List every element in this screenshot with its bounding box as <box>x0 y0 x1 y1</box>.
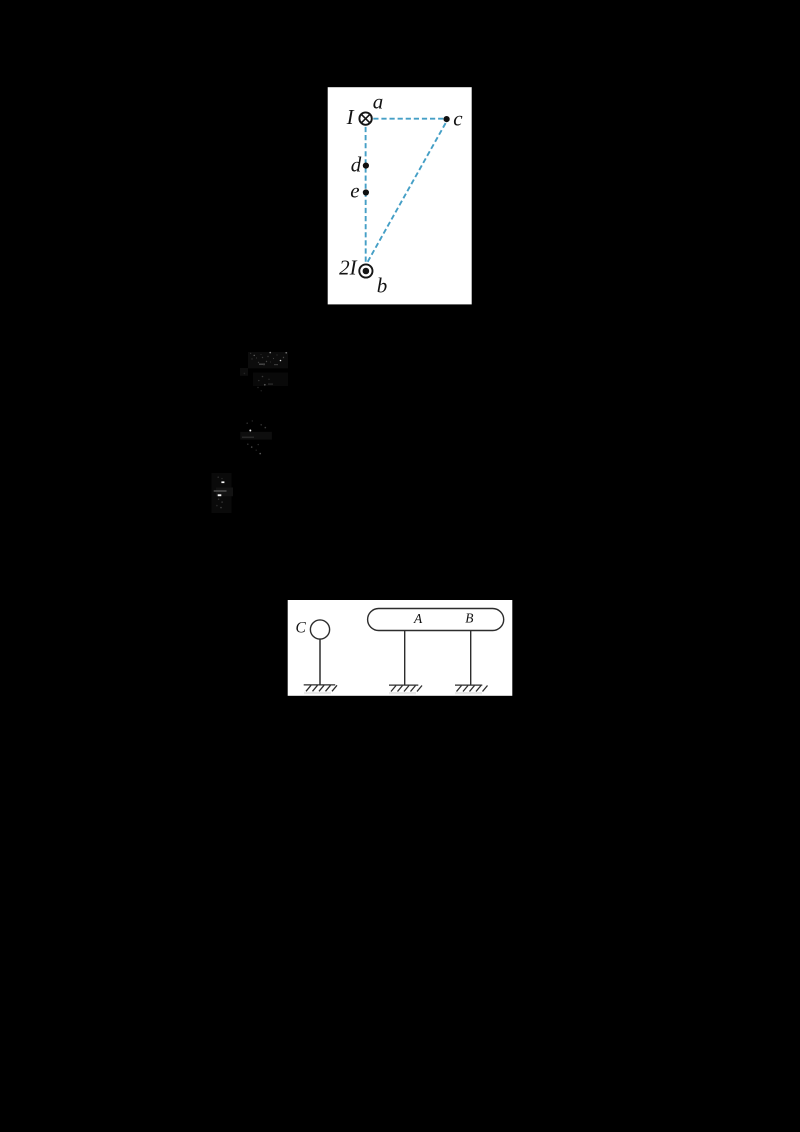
node d dot <box>363 163 369 169</box>
support rod A <box>404 631 406 686</box>
ground echo smudge under C <box>304 692 331 694</box>
svg-text:a: a <box>373 89 384 113</box>
figure 2 panel (white background) <box>288 600 513 696</box>
svg-text:B: B <box>465 611 473 626</box>
svg-text:2I: 2I <box>339 256 358 280</box>
svg-text:b: b <box>377 273 388 297</box>
conductor AB (stadium shape) <box>368 609 504 631</box>
svg-text:I: I <box>346 105 355 129</box>
svg-text:d: d <box>351 153 362 177</box>
wire c-b (diagonal dashed) <box>368 123 446 262</box>
wire a-c (horizontal dashed) <box>373 118 446 120</box>
current symbol I into page (circle-cross) at node a <box>359 112 371 124</box>
ground under C <box>304 685 337 691</box>
svg-text:A: A <box>413 611 423 626</box>
faint equation block 2 (fraction) <box>240 420 272 454</box>
support rod C <box>319 639 321 685</box>
faint equation block 3 (tall fraction) <box>212 473 234 513</box>
node e dot <box>363 189 369 195</box>
svg-text:c: c <box>453 107 463 131</box>
ground echo smudge under A <box>389 692 416 694</box>
sphere C <box>310 620 329 639</box>
wire a-b (vertical dashed) <box>365 127 367 262</box>
support rod B <box>470 631 472 686</box>
svg-text:C: C <box>296 620 307 637</box>
ground under A <box>389 685 422 691</box>
current symbol 2I out of page (circle-dot) at node b <box>359 264 372 277</box>
faint equation block 1 line 2 <box>257 376 273 392</box>
ground under B <box>455 685 488 691</box>
ground echo smudge under B <box>455 692 482 694</box>
figure 1 panel (white background) <box>328 87 472 304</box>
node c dot <box>444 116 450 122</box>
svg-text:e: e <box>350 178 359 202</box>
faint equation block 1 line 1 <box>240 352 288 386</box>
